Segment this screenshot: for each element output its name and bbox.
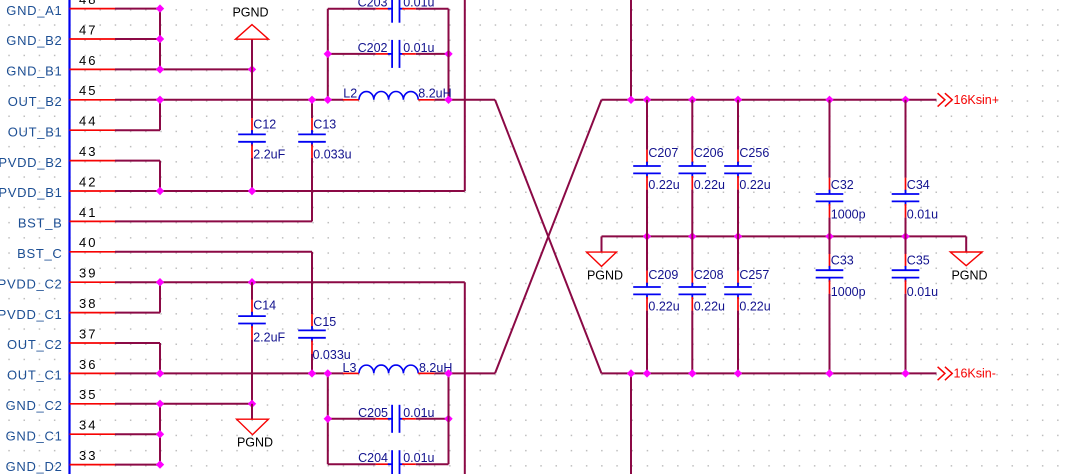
- junction 16Ksin- x738: [734, 369, 742, 377]
- junction 16Ksin+ x830: [825, 96, 833, 104]
- wire L3 output to crossover: [435, 372, 495, 374]
- svg-text:C35: C35: [907, 253, 930, 267]
- junction PVDD_C x160: [156, 278, 164, 286]
- junction GND_C row33: [156, 460, 164, 468]
- wire GND_C1 pin34 to junction: [115, 433, 160, 435]
- IC U1 body edge: [68, 0, 70, 474]
- svg-text:C12: C12: [253, 117, 276, 131]
- svg-text:PVDD_C2: PVDD_C2: [0, 276, 63, 291]
- svg-text:40: 40: [79, 235, 97, 250]
- wire C206 bottom lead: [691, 190, 693, 237]
- svg-text:PVDD_B2: PVDD_B2: [0, 155, 63, 170]
- wire C34 bottom lead: [905, 218, 907, 237]
- svg-text:0.22u: 0.22u: [694, 178, 725, 192]
- junction C202 right: [444, 50, 452, 58]
- pin 47 GND_B2: [6, 22, 115, 48]
- power port PGND right: [950, 236, 987, 282]
- capacitor C15 0.033u bootstrap C: [298, 314, 351, 362]
- svg-text:47: 47: [79, 22, 97, 37]
- svg-text:1000p: 1000p: [831, 285, 866, 299]
- wire C13 to BST_B row: [311, 158, 313, 221]
- svg-text:0.22u: 0.22u: [694, 299, 725, 313]
- wire 16Ksin- rail: [602, 372, 937, 374]
- wire ladder right rail x448: [448, 9, 450, 100]
- svg-text:41: 41: [79, 205, 97, 220]
- capacitor C32 1000p: [816, 178, 866, 222]
- pin 35 GND_C2: [6, 387, 115, 413]
- svg-text:36: 36: [79, 357, 97, 372]
- junction L3 output row36: [444, 369, 452, 377]
- svg-text:48: 48: [79, 0, 97, 7]
- wire C207 top lead: [646, 100, 648, 150]
- junction 16Ksin+ x631: [627, 96, 635, 104]
- junction 16Ksin- x906: [901, 369, 909, 377]
- wire PVDD_C2 row pin39 to corner x465: [115, 281, 465, 283]
- svg-text:0.01u: 0.01u: [907, 285, 938, 299]
- svg-text:OUT_C1: OUT_C1: [7, 368, 63, 383]
- svg-text:BST_B: BST_B: [18, 216, 63, 231]
- wire ladder left rail bottom x328: [327, 373, 329, 464]
- wire ladder row C202: [328, 53, 376, 55]
- svg-text:0.01u: 0.01u: [403, 451, 434, 465]
- wire BST_B pin41 to C13: [115, 220, 312, 222]
- svg-text:C202: C202: [358, 41, 388, 55]
- junction ladder left rail row45: [324, 96, 332, 104]
- wire BST_C pin40 to C15: [115, 251, 312, 253]
- svg-text:L2: L2: [343, 86, 357, 100]
- junction 16Ksin+ x906: [901, 96, 909, 104]
- junction PVDD_B C12: [248, 187, 256, 195]
- svg-text:0.22u: 0.22u: [648, 178, 679, 192]
- wire OUT_B to C13: [311, 100, 313, 118]
- svg-text:C33: C33: [831, 253, 854, 267]
- capacitor C13 0.033u bootstrap B: [298, 117, 351, 161]
- svg-text:0.22u: 0.22u: [648, 299, 679, 313]
- svg-text:C207: C207: [648, 146, 678, 160]
- junction PGND rail x692: [688, 232, 696, 240]
- capacitor C209 0.22u: [633, 268, 680, 313]
- svg-text:PGND: PGND: [237, 436, 273, 450]
- net label 16Ksin-: [938, 367, 996, 381]
- junction 16Ksin- x692: [688, 369, 696, 377]
- power port PGND top: [232, 6, 268, 70]
- wire C209 top lead: [646, 236, 648, 270]
- svg-text:44: 44: [79, 114, 97, 129]
- wire C15 to OUT_C row: [311, 354, 313, 373]
- wire C257 bottom lead: [737, 311, 739, 374]
- pin 39 PVDD_C2: [0, 266, 115, 292]
- svg-text:GND_B2: GND_B2: [6, 33, 62, 48]
- pin 34 GND_C1: [6, 418, 115, 444]
- pin 44 OUT_B1: [8, 114, 115, 140]
- wire C35 bottom lead: [905, 294, 907, 374]
- svg-text:39: 39: [79, 266, 97, 281]
- pin 37 OUT_C2: [7, 326, 115, 352]
- svg-text:GND_A1: GND_A1: [6, 3, 62, 18]
- wire C209 bottom lead: [646, 311, 648, 374]
- diagonal wire OUT_C to 16Ksin+: [495, 100, 602, 374]
- svg-text:GND_B1: GND_B1: [6, 64, 62, 79]
- wire L2 output to crossover: [435, 99, 495, 101]
- svg-text:C208: C208: [694, 268, 724, 282]
- pin 42 PVDD_B1: [0, 174, 115, 200]
- wire ladder row C204: [328, 463, 376, 465]
- svg-text:34: 34: [79, 418, 97, 433]
- pin 38 PVDD_C1: [0, 296, 115, 322]
- svg-text:C14: C14: [253, 299, 276, 313]
- junction PGND rail x647: [643, 232, 651, 240]
- junction 16Ksin- x830: [825, 369, 833, 377]
- svg-text:PGND: PGND: [587, 269, 623, 283]
- net label 16Ksin+: [938, 93, 999, 107]
- wire OUT_B2 pin45 to L2: [115, 99, 343, 101]
- svg-text:16Ksin+: 16Ksin+: [954, 93, 1000, 107]
- wire C32 top lead: [829, 100, 831, 178]
- diagonal wire OUT_B to 16Ksin-: [495, 100, 602, 374]
- svg-text:37: 37: [79, 326, 97, 341]
- svg-text:C15: C15: [313, 315, 336, 329]
- svg-text:OUT_B1: OUT_B1: [8, 124, 63, 139]
- junction OUT_C row36 x160: [156, 369, 164, 377]
- svg-text:0.033u: 0.033u: [313, 148, 351, 162]
- svg-text:C204: C204: [358, 451, 388, 465]
- junction C205 right: [444, 415, 452, 423]
- junction OUT_B row45 x312: [308, 96, 316, 104]
- svg-text:PGND: PGND: [232, 6, 268, 20]
- wire PVDD_B vertical x465 to top edge: [464, 0, 466, 191]
- svg-text:33: 33: [79, 448, 97, 463]
- svg-text:PVDD_C1: PVDD_C1: [0, 307, 63, 322]
- wire PGND column to C12: [251, 69, 253, 118]
- wire BST_C down to C15: [311, 252, 313, 314]
- svg-text:2.2uF: 2.2uF: [253, 330, 285, 344]
- wire C32 bottom lead: [829, 218, 831, 237]
- capacitor C202 0.01u: [358, 40, 435, 68]
- pin 40 BST_C: [17, 235, 115, 261]
- svg-text:BST_C: BST_C: [17, 246, 62, 261]
- junction GND net row46: [156, 65, 164, 73]
- wire GND_B1 pin46 to PGND column: [115, 68, 252, 70]
- junction OUT_C row36 x312: [308, 369, 316, 377]
- wire OUT_C1 pin36 to L3: [115, 372, 343, 374]
- wire OUT_D to bottom edge: [630, 373, 632, 474]
- pin 43 PVDD_B2: [0, 144, 115, 170]
- junction GND_C row35: [156, 400, 164, 408]
- capacitor C34 0.01u: [892, 178, 938, 222]
- wire C208 bottom lead: [691, 311, 693, 374]
- capacitor C35 0.01u: [892, 253, 938, 298]
- wire GND_D2 pin33 to junction: [115, 464, 160, 466]
- svg-text:C13: C13: [313, 117, 336, 131]
- wire C33 top lead: [829, 236, 831, 254]
- junction C202 left: [324, 50, 332, 58]
- svg-text:L3: L3: [343, 361, 357, 375]
- inductor L3 8.2uH: [343, 361, 453, 375]
- wire ladder row C205: [328, 418, 376, 420]
- svg-text:GND_D2: GND_D2: [6, 459, 63, 474]
- svg-text:0.01u: 0.01u: [403, 406, 434, 420]
- junction 16Ksin+ x738: [734, 96, 742, 104]
- junction OUT_B row45 x160: [156, 96, 164, 104]
- capacitor C257 0.22u: [724, 268, 771, 313]
- capacitor C12 2.2uF: [238, 117, 285, 161]
- svg-text:C205: C205: [358, 406, 388, 420]
- svg-text:GND_C1: GND_C1: [6, 428, 63, 443]
- svg-text:16Ksin-: 16Ksin-: [954, 367, 996, 381]
- junction C205 left: [324, 415, 332, 423]
- wire C33 bottom lead: [829, 294, 831, 374]
- wire C12 to PVDD_B1 row: [251, 158, 253, 191]
- junction ladder left rail row36: [324, 369, 332, 377]
- svg-text:PVDD_B1: PVDD_B1: [0, 185, 63, 200]
- svg-text:1000p: 1000p: [831, 208, 866, 222]
- capacitor C203 0.01u: [358, 0, 435, 23]
- svg-text:GND_C2: GND_C2: [6, 398, 63, 413]
- junction GND_B1 / PGND column: [248, 65, 256, 73]
- wire PVDD_C1 pin38 up to PVDD_C2: [115, 312, 160, 314]
- wire C14 down across OUT_C row to GND_C row: [251, 340, 253, 404]
- pin 45 OUT_B2: [8, 83, 115, 109]
- wire PVDD_B2 pin43 down to PVDD_B1: [115, 160, 160, 162]
- capacitor C206 0.22u: [679, 146, 726, 192]
- capacitor C256 0.22u: [724, 146, 771, 192]
- wire C256 bottom lead: [737, 190, 739, 237]
- junction PVDD_B x160: [156, 187, 164, 195]
- junction 16Ksin- x631: [627, 369, 635, 377]
- wire C207 bottom lead: [646, 190, 648, 237]
- wire OUT_A from top edge: [630, 0, 632, 100]
- svg-text:0.22u: 0.22u: [739, 178, 770, 192]
- capacitor C204 0.01u: [358, 450, 434, 474]
- pin 48 GND_A1: [6, 0, 115, 18]
- wire 16Ksin+ rail: [602, 99, 937, 101]
- capacitor C208 0.22u: [679, 268, 726, 313]
- svg-text:PGND: PGND: [951, 268, 987, 282]
- svg-text:0.01u: 0.01u: [907, 208, 938, 222]
- svg-text:C257: C257: [739, 268, 769, 282]
- wire PVDD_C vertical x465 to bottom edge: [464, 282, 466, 474]
- svg-text:OUT_B2: OUT_B2: [8, 94, 63, 109]
- wire C208 top lead: [691, 236, 693, 270]
- junction 16Ksin+ x647: [643, 96, 651, 104]
- pin 36 OUT_C1: [7, 357, 115, 383]
- pin 41 BST_B: [18, 205, 115, 231]
- wire OUT_B1 pin44 up to OUT_B2: [115, 129, 160, 131]
- wire GND_B2 pin47 to junction: [115, 38, 160, 40]
- svg-text:C203: C203: [358, 0, 388, 10]
- wire C257 top lead: [737, 236, 739, 270]
- power port PGND bottom: [237, 404, 273, 450]
- junction GND_C row34: [156, 430, 164, 438]
- wire C206 top lead: [691, 100, 693, 150]
- svg-text:C32: C32: [831, 178, 854, 192]
- pin 46 GND_B1: [6, 53, 115, 79]
- wire ladder top row C203: [328, 8, 376, 10]
- svg-text:0.01u: 0.01u: [403, 0, 434, 10]
- pin 33 GND_D2: [6, 448, 115, 474]
- svg-text:46: 46: [79, 53, 97, 68]
- svg-text:45: 45: [79, 83, 97, 98]
- wire C256 top lead: [737, 100, 739, 150]
- junction GND net row48: [156, 4, 164, 12]
- junction PGND rail x830: [825, 232, 833, 240]
- wire GND_C2 pin35 to PGND column: [115, 403, 252, 405]
- junction PGND rail x738: [734, 232, 742, 240]
- junction GND net row47: [156, 35, 164, 43]
- junction GND_C PGND column: [248, 400, 256, 408]
- junction 16Ksin- x647: [643, 369, 651, 377]
- wire PGND mid rail: [602, 235, 967, 237]
- wire GND_C vertical bus: [159, 404, 161, 465]
- wire OUT_C2 pin37 down to OUT_C1: [115, 342, 160, 344]
- svg-text:C34: C34: [907, 178, 930, 192]
- wire GND_B vertical bus: [159, 9, 161, 70]
- wire PVDD_B1 row pin42 to corner x465: [115, 190, 465, 192]
- svg-text:0.22u: 0.22u: [739, 299, 770, 313]
- inductor L2 8.2uH: [343, 86, 452, 100]
- power port PGND mid-left: [587, 236, 623, 282]
- capacitor C14 2.2uF: [238, 299, 285, 345]
- wire C35 top lead: [905, 236, 907, 254]
- wire ladder right rail bottom x448: [448, 373, 450, 464]
- svg-text:38: 38: [79, 296, 97, 311]
- capacitor C33 1000p: [816, 253, 866, 298]
- wire ladder left rail x328: [327, 9, 329, 100]
- junction PGND rail x906: [901, 232, 909, 240]
- capacitor C205 0.01u: [358, 405, 434, 433]
- junction 16Ksin+ x692: [688, 96, 696, 104]
- junction L2 output row45: [444, 96, 452, 104]
- junction PVDD_C C14: [248, 278, 256, 286]
- svg-text:42: 42: [79, 174, 97, 189]
- wire C34 top lead: [905, 100, 907, 178]
- svg-text:35: 35: [79, 387, 97, 402]
- svg-text:OUT_C2: OUT_C2: [7, 337, 63, 352]
- svg-text:43: 43: [79, 144, 97, 159]
- wire PVDD_C to C14: [251, 282, 253, 300]
- svg-text:0.01u: 0.01u: [403, 41, 434, 55]
- wire GND_A1 pin48 to junction: [115, 8, 160, 10]
- svg-text:C206: C206: [694, 146, 724, 160]
- svg-text:2.2uF: 2.2uF: [253, 148, 285, 162]
- svg-text:C256: C256: [739, 146, 769, 160]
- capacitor C207 0.22u: [633, 146, 680, 192]
- svg-text:C209: C209: [648, 268, 678, 282]
